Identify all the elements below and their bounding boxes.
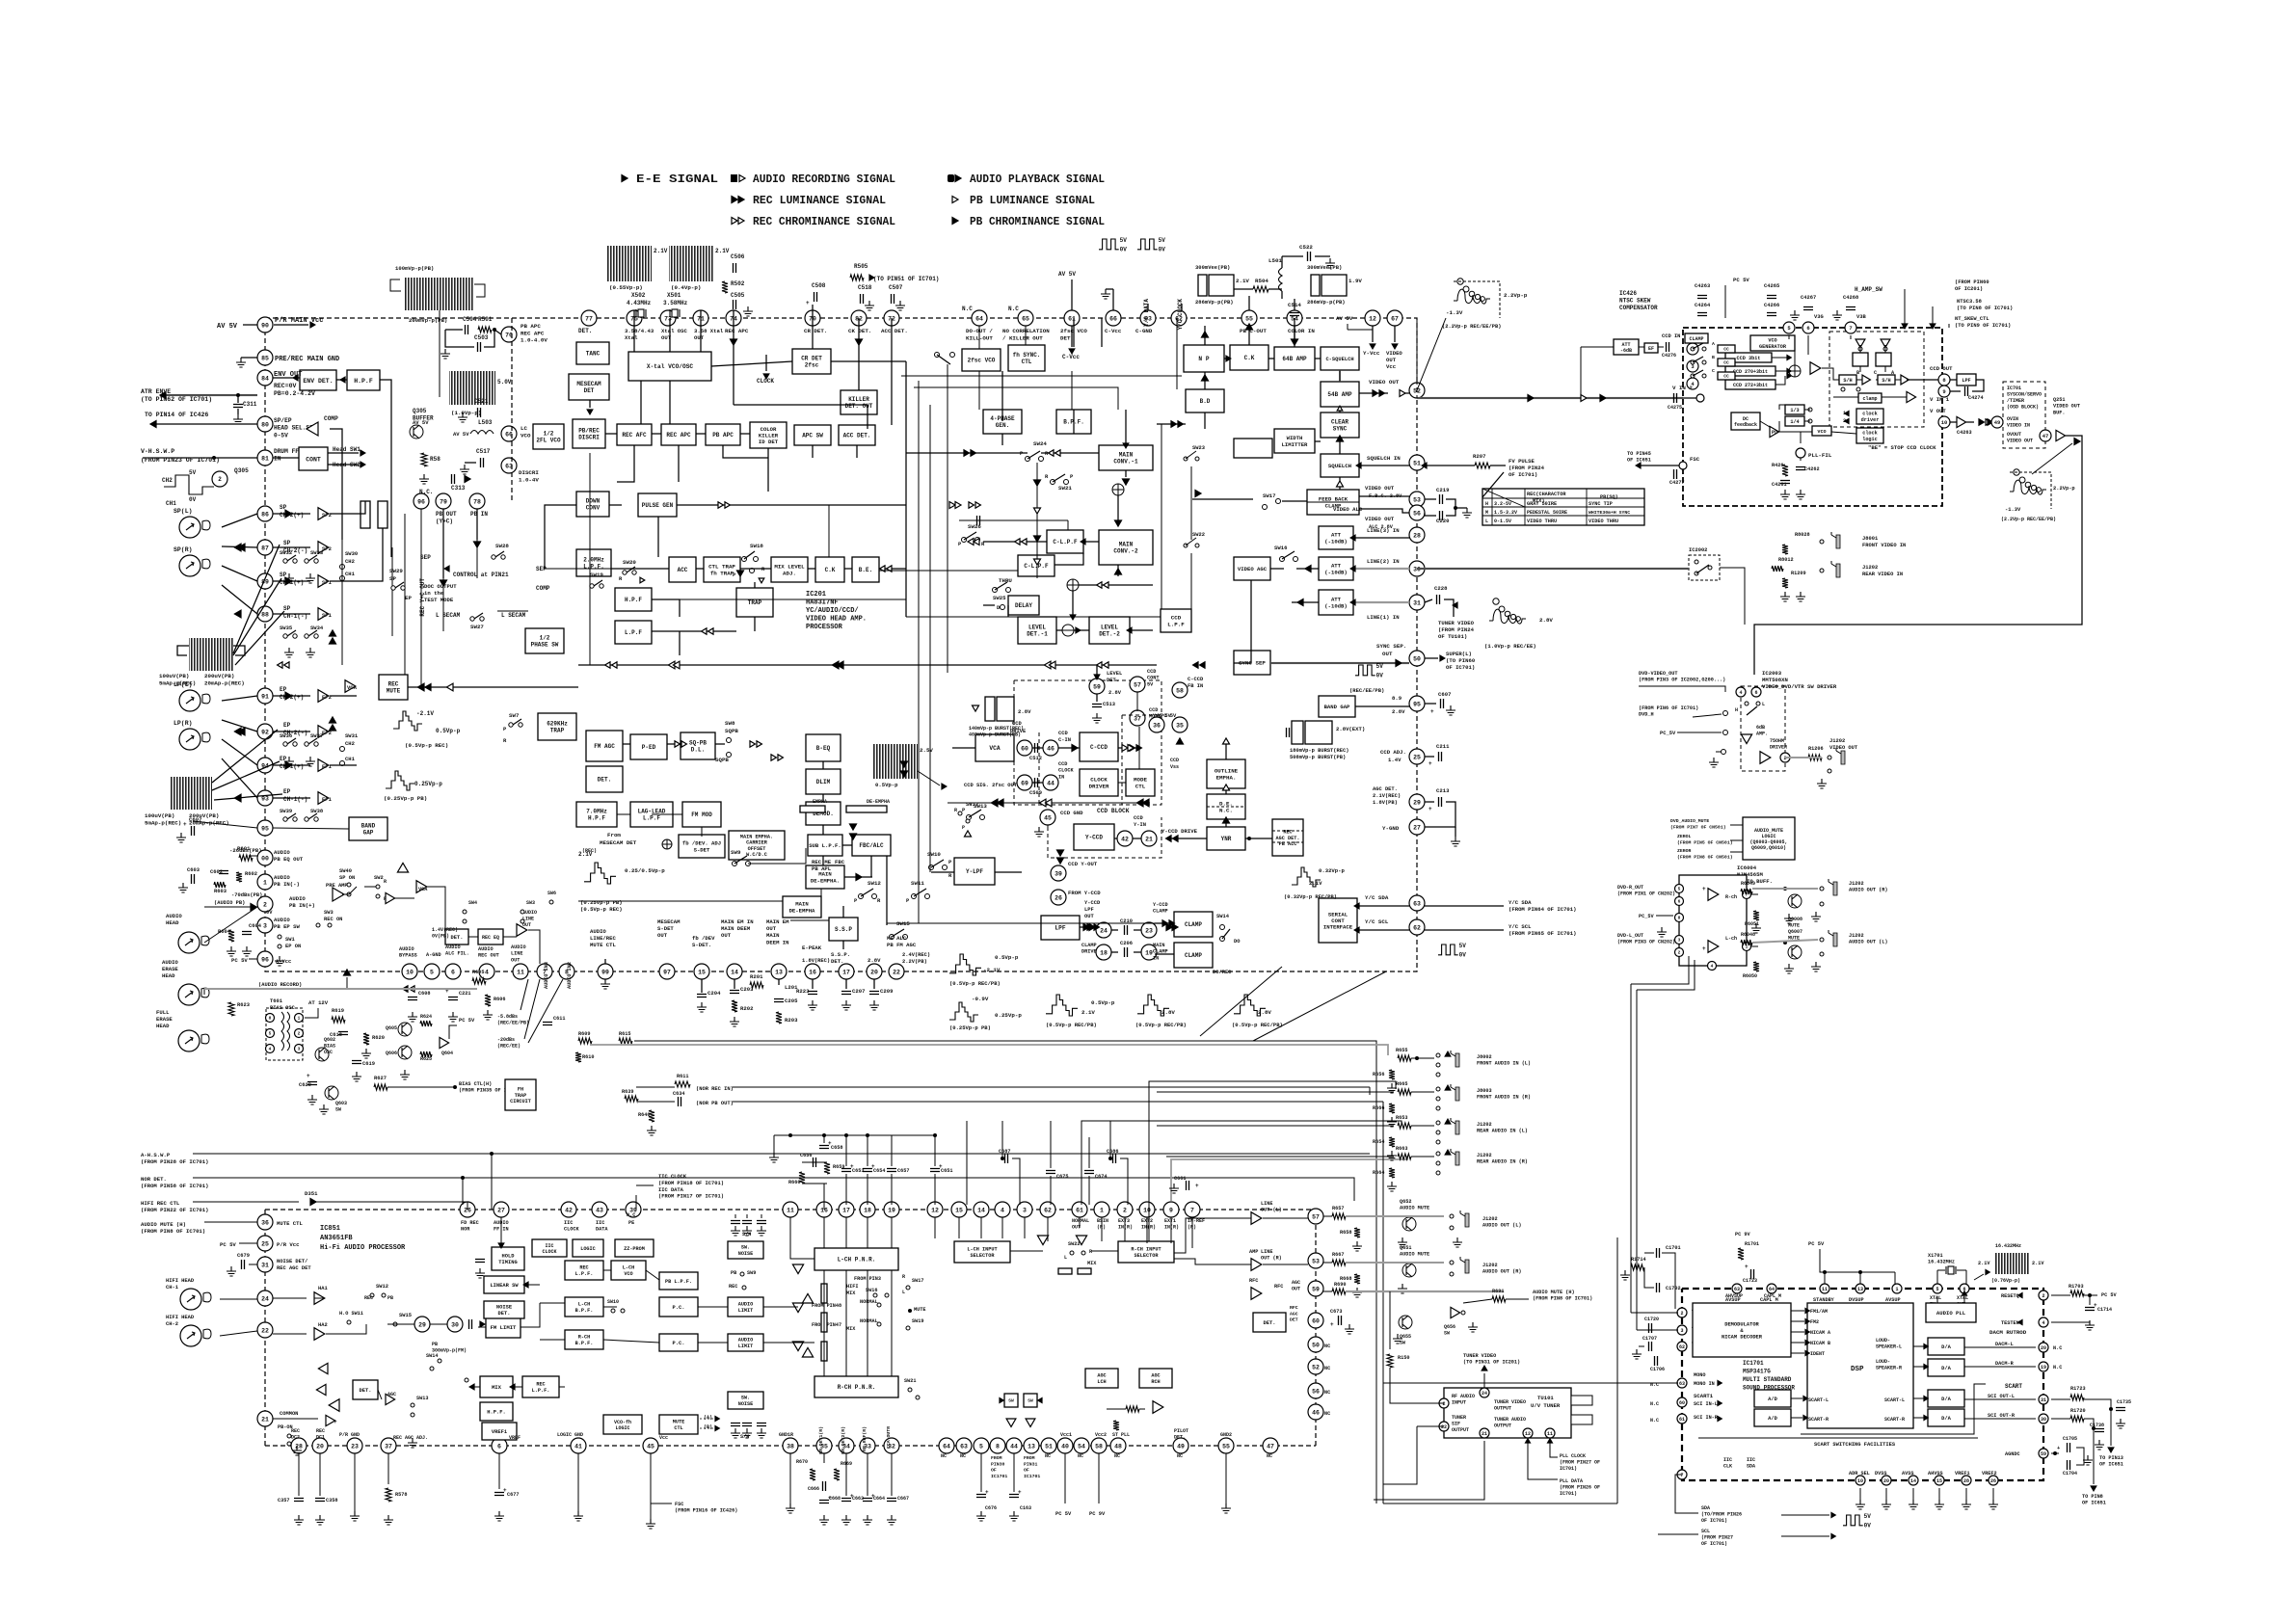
pin 76 PB APC bbox=[501, 327, 517, 342]
speaker SP(R) bbox=[179, 555, 200, 576]
burst rect glyph ccd bbox=[985, 697, 995, 721]
R624 R625 bbox=[420, 1021, 432, 1026]
svg-text:NR-DET2(R): NR-DET2(R) bbox=[841, 1426, 846, 1454]
svg-text:SW21: SW21 bbox=[1058, 485, 1072, 492]
svg-text:0.32Vp-p: 0.32Vp-p bbox=[1319, 867, 1345, 874]
svg-text:R201: R201 bbox=[750, 973, 763, 980]
up arrows to vca line bbox=[330, 630, 336, 636]
pin 79 bbox=[436, 493, 451, 509]
pin 27 IC201 right bbox=[1409, 819, 1425, 835]
svg-text:AV 5V: AV 5V bbox=[1058, 271, 1076, 278]
svg-text:LEVEL: LEVEL bbox=[1028, 625, 1046, 631]
svg-text:S/H: S/H bbox=[740, 1434, 749, 1440]
svg-text:YNR: YNR bbox=[1221, 836, 1232, 842]
R6049 bbox=[1741, 889, 1752, 894]
svg-text:R-CH P.N.R.: R-CH P.N.R. bbox=[838, 1384, 876, 1391]
svg-text:+: + bbox=[1428, 806, 1432, 812]
svg-text:29: 29 bbox=[418, 1321, 426, 1328]
NP block bbox=[1184, 345, 1224, 372]
svg-text:feedback: feedback bbox=[1734, 422, 1757, 428]
svg-text:51: 51 bbox=[1045, 1443, 1053, 1450]
capacitor C656 bbox=[814, 1157, 816, 1167]
svg-text:OUT: OUT bbox=[1292, 1287, 1300, 1292]
pin 57 IC851 right bbox=[1308, 1209, 1323, 1224]
arrow into table bbox=[1482, 472, 1504, 497]
MSP3417 thick dashed box bbox=[1682, 1289, 2043, 1480]
svg-text:PC 5V: PC 5V bbox=[1808, 1241, 1825, 1247]
svg-text:LOGIC: LOGIC bbox=[615, 1425, 629, 1431]
pin 30 IC201 right bbox=[1409, 561, 1425, 576]
sum circle conv2 bbox=[1067, 579, 1079, 591]
svg-text:PB IN(-): PB IN(-) bbox=[274, 881, 300, 888]
svg-text:(REC/EE/PB): (REC/EE/PB) bbox=[497, 1021, 529, 1026]
svg-text:CONV.-2: CONV.-2 bbox=[1113, 548, 1138, 555]
svg-text:42: 42 bbox=[565, 1207, 573, 1213]
svg-text:HEAD: HEAD bbox=[166, 919, 179, 926]
square wave sync sep bbox=[1355, 665, 1375, 676]
pin 27 IC851 top bbox=[494, 1202, 509, 1217]
svg-text:45: 45 bbox=[1044, 814, 1052, 821]
svg-text:286mVp-p(PB): 286mVp-p(PB) bbox=[1307, 299, 1346, 306]
svg-text:CIRCUIT: CIRCUIT bbox=[510, 1099, 531, 1104]
wires ynr bbox=[1245, 838, 1272, 839]
table rec pb levels bbox=[1482, 489, 1644, 525]
R604 C604 bbox=[228, 930, 234, 942]
pll fsc wire bbox=[1639, 465, 1683, 466]
svg-text:+: + bbox=[183, 821, 187, 828]
VCA triangle bbox=[345, 680, 356, 693]
svg-text:(0.5Vp-p REC): (0.5Vp-p REC) bbox=[405, 742, 448, 749]
svg-text:2: 2 bbox=[2042, 1293, 2044, 1299]
pin 82 IC201 top bbox=[851, 310, 867, 326]
svg-text:NC: NC bbox=[1114, 1453, 1120, 1459]
svg-text:2.2Vp-p: 2.2Vp-p bbox=[1504, 292, 1528, 299]
svg-text:AUDIO: AUDIO bbox=[738, 1338, 754, 1344]
svg-text:(TO PIN60: (TO PIN60 bbox=[1446, 657, 1476, 664]
svg-text:(FROM PIN7 OF CN501): (FROM PIN7 OF CN501) bbox=[1670, 824, 1726, 830]
svg-text:100mVp-p(PB): 100mVp-p(PB) bbox=[395, 265, 434, 272]
DLIM block bbox=[806, 769, 841, 794]
svg-text:TRAP: TRAP bbox=[748, 599, 762, 606]
pin 90 IC201 left bbox=[257, 317, 273, 333]
audio out R jack mid bbox=[1450, 1261, 1454, 1264]
svg-text:FRONT AUDIO IN (L): FRONT AUDIO IN (L) bbox=[1477, 1061, 1531, 1067]
svg-text:63: 63 bbox=[1413, 900, 1421, 907]
pins 29 30 bbox=[414, 1317, 430, 1332]
pin 31 IC201 right bbox=[1409, 595, 1425, 610]
svg-text:LOUD-: LOUD- bbox=[1876, 1338, 1890, 1344]
ENV DET block bbox=[300, 370, 336, 390]
svg-text:5V: 5V bbox=[1864, 1513, 1872, 1520]
SH block1 bbox=[1839, 375, 1856, 385]
svg-text:AV 5V: AV 5V bbox=[217, 323, 238, 331]
SSP block bbox=[829, 918, 858, 941]
svg-text:2fsc VCO: 2fsc VCO bbox=[968, 358, 996, 364]
svg-text:PIN31: PIN31 bbox=[1024, 1461, 1038, 1467]
svg-text:C209: C209 bbox=[880, 988, 894, 995]
glyph 300mV PB2 bbox=[1311, 275, 1320, 296]
svg-text:PROCESSOR: PROCESSOR bbox=[806, 624, 843, 631]
svg-text:H: H bbox=[1735, 707, 1738, 713]
pin 32 IC851 bottom bbox=[884, 1438, 899, 1453]
svg-text:SELECTOR: SELECTOR bbox=[971, 1253, 996, 1259]
wire trunk rec bbox=[408, 686, 429, 688]
CLAMP block2 bbox=[1174, 943, 1213, 968]
svg-text:PB L.P.F.: PB L.P.F. bbox=[665, 1279, 692, 1285]
svg-text:SW2: SW2 bbox=[374, 875, 384, 881]
svg-text:DEMODULATOR: DEMODULATOR bbox=[1724, 1321, 1759, 1327]
svg-text:11: 11 bbox=[1822, 1287, 1828, 1292]
svg-text:VIDEO THRU: VIDEO THRU bbox=[1527, 519, 1557, 524]
svg-text:CH-2: CH-2 bbox=[166, 1321, 178, 1327]
svg-text:Y-LPF: Y-LPF bbox=[966, 868, 983, 875]
svg-text:DET.: DET. bbox=[598, 777, 611, 784]
svg-text:CH-1: CH-1 bbox=[166, 1285, 178, 1290]
svg-text:SCART-R: SCART-R bbox=[1884, 1417, 1905, 1423]
svg-text:+: + bbox=[1430, 708, 1434, 715]
left lines to audio in bbox=[1157, 1091, 1394, 1093]
pin 00 IC201 left bbox=[257, 850, 273, 865]
svg-text:C204: C204 bbox=[707, 990, 721, 997]
ccd trunk y833 bbox=[948, 802, 1150, 804]
svg-text:C512: C512 bbox=[1029, 756, 1042, 761]
SW NOISE block bottom bbox=[728, 1392, 763, 1409]
CCD block dashed outline bbox=[1014, 680, 1161, 805]
ZZ-PROM block bbox=[615, 1239, 654, 1257]
svg-text:SW34: SW34 bbox=[310, 625, 324, 631]
DEMODULATOR NICAM block bbox=[1693, 1303, 1791, 1357]
svg-text:1/2: 1/2 bbox=[540, 635, 550, 642]
svg-text:EP1: EP1 bbox=[322, 763, 333, 770]
svg-text:PC_5V: PC_5V bbox=[1660, 731, 1676, 736]
svg-text:SW12: SW12 bbox=[868, 880, 881, 887]
svg-text:IN(R): IN(R) bbox=[1141, 1225, 1156, 1231]
svg-text:-2.1V: -2.1V bbox=[416, 710, 434, 717]
svg-text:C313: C313 bbox=[451, 485, 466, 492]
svg-text:C521: C521 bbox=[474, 398, 489, 405]
svg-text:R670: R670 bbox=[796, 1459, 808, 1465]
pin 84 IC201 left bbox=[257, 370, 273, 386]
svg-text:B.D: B.D bbox=[1200, 398, 1211, 405]
svg-text:2.8V: 2.8V bbox=[1539, 617, 1553, 624]
capacitor C313 bbox=[452, 474, 455, 484]
nor rec in wire bbox=[675, 1081, 690, 1087]
svg-text:6: 6 bbox=[1806, 325, 1809, 332]
bus into pnr bbox=[790, 1217, 814, 1259]
svg-text:R-ch: R-ch bbox=[1725, 894, 1737, 900]
pin 75 IC201 top bbox=[627, 310, 642, 326]
svg-text:LPF: LPF bbox=[1055, 925, 1065, 932]
svg-text:5V: 5V bbox=[1159, 237, 1166, 244]
svg-text:(B): (B) bbox=[704, 1424, 712, 1430]
svg-text:L: L bbox=[1762, 702, 1765, 707]
svg-text:C611: C611 bbox=[553, 1016, 565, 1022]
svg-text:SW7: SW7 bbox=[509, 712, 520, 719]
svg-text:OUT: OUT bbox=[1386, 357, 1397, 363]
pin 86 IC201 left bbox=[257, 506, 273, 521]
svg-text:C4266: C4266 bbox=[1764, 303, 1779, 308]
svg-text:IC1701: IC1701 bbox=[991, 1474, 1007, 1479]
speaker LP(R) bbox=[179, 729, 200, 750]
svg-text:2: 2 bbox=[298, 1031, 301, 1037]
svg-text:MONO: MONO bbox=[1694, 1372, 1705, 1378]
svg-text:R639: R639 bbox=[622, 1089, 633, 1095]
pin 91 IC201 left bbox=[257, 688, 273, 704]
MSP power C1701 bbox=[1657, 1248, 1660, 1258]
svg-text:C206: C206 bbox=[1120, 941, 1133, 946]
svg-text:REC ON: REC ON bbox=[324, 917, 342, 922]
audio mute logic block bbox=[1743, 817, 1795, 860]
R606 bbox=[485, 995, 491, 1006]
svg-text:300mVp-p(FM): 300mVp-p(FM) bbox=[432, 1348, 467, 1354]
svg-text:C1714: C1714 bbox=[2097, 1307, 2112, 1313]
svg-text:90: 90 bbox=[261, 322, 269, 329]
svg-text:7.0MHz: 7.0MHz bbox=[586, 809, 607, 815]
amp tri clamp bbox=[1907, 391, 1916, 402]
svg-text:(0.25Vp-p PB): (0.25Vp-p PB) bbox=[949, 1024, 991, 1031]
svg-text:5V: 5V bbox=[1120, 237, 1128, 244]
ccd out pin8 bbox=[1938, 374, 1950, 386]
svg-text:RFC: RFC bbox=[1290, 1305, 1298, 1311]
wires clamp bbox=[1155, 922, 1174, 924]
svg-text:95: 95 bbox=[1413, 701, 1421, 707]
svg-text:C221: C221 bbox=[459, 991, 470, 997]
svg-text:SYNC: SYNC bbox=[1333, 426, 1348, 433]
vertical bus pair bbox=[1369, 1087, 1371, 1095]
audio out l jack bbox=[1820, 938, 1824, 942]
audio out r jack bbox=[1820, 887, 1824, 891]
svg-text:CH1: CH1 bbox=[345, 571, 356, 577]
EF triangle bbox=[1957, 416, 1966, 427]
MAIN EMPHA CARRIER block bbox=[729, 831, 785, 860]
pre amp bbox=[333, 888, 344, 901]
svg-text:4.43MHz: 4.43MHz bbox=[627, 300, 652, 306]
svg-text:P.C.: P.C. bbox=[673, 1305, 685, 1311]
pin 63 IC851 bottom bbox=[956, 1438, 972, 1453]
svg-text:SQUELCH IN: SQUELCH IN bbox=[1367, 455, 1401, 462]
svg-text:R1723: R1723 bbox=[2070, 1386, 2086, 1392]
svg-text:TRAP: TRAP bbox=[515, 1093, 526, 1099]
svg-text:64: 64 bbox=[1769, 1287, 1775, 1292]
svg-text:C676: C676 bbox=[985, 1505, 997, 1511]
svg-text:13: 13 bbox=[775, 969, 783, 975]
svg-text:NC: NC bbox=[1324, 1411, 1330, 1417]
EF small block bbox=[1644, 343, 1658, 353]
C4277 cap bbox=[1674, 469, 1677, 479]
pin 25 IC201 right bbox=[1409, 749, 1425, 764]
c-ccd out arrows bbox=[1122, 745, 1128, 752]
vco small block bbox=[1812, 426, 1831, 436]
svg-text:"BE" = STOP CCD CLOCK: "BE" = STOP CCD CLOCK bbox=[1868, 444, 1936, 451]
svg-text:29: 29 bbox=[1413, 799, 1421, 806]
svg-text:Y/C CLOCK: Y/C CLOCK bbox=[1177, 299, 1184, 331]
svg-text:-70dBs(PB): -70dBs(PB) bbox=[231, 892, 262, 898]
svg-text:OF: OF bbox=[1024, 1468, 1029, 1474]
svg-text:23: 23 bbox=[1145, 927, 1153, 934]
svg-text:REAR VIDEO IN: REAR VIDEO IN bbox=[1862, 572, 1903, 577]
svg-text:C518: C518 bbox=[858, 284, 872, 291]
svg-text:COMP: COMP bbox=[324, 415, 338, 422]
svg-text:C213: C213 bbox=[1436, 787, 1450, 794]
mid horizontal trunk y690 bbox=[578, 664, 1157, 666]
svg-text:19: 19 bbox=[888, 1207, 895, 1213]
svg-text:SCL: SCL bbox=[1701, 1529, 1710, 1534]
ATT block pin31 bbox=[1319, 590, 1353, 615]
svg-text:AUDIO: AUDIO bbox=[478, 946, 494, 952]
SQUELCH block bbox=[1321, 454, 1359, 477]
HA2 amp bbox=[314, 1328, 325, 1341]
svg-text:PB EP SW: PB EP SW bbox=[274, 923, 300, 930]
wire ssp bbox=[842, 906, 844, 918]
row440 hwires bbox=[605, 433, 617, 435]
svg-text:L: L bbox=[1485, 519, 1488, 524]
svg-text:2.2Vp-p: 2.2Vp-p bbox=[2053, 486, 2075, 492]
svg-text:R606: R606 bbox=[494, 997, 505, 1002]
svg-text:(TO/FROM PIN26: (TO/FROM PIN26 bbox=[1701, 1512, 1742, 1518]
pin 64 IC201 top bbox=[972, 310, 987, 326]
svg-text:5mAp-p(REC): 5mAp-p(REC) bbox=[159, 679, 196, 686]
svg-text:ZEROR: ZEROR bbox=[1677, 848, 1692, 854]
svg-text:IIC: IIC bbox=[1747, 1457, 1755, 1463]
svg-text:CC: CC bbox=[1723, 360, 1729, 366]
pin 99 IC201 bottom bbox=[598, 964, 613, 979]
svg-text:(2.2Vp-p REC/EE/PB): (2.2Vp-p REC/EE/PB) bbox=[1442, 324, 1501, 330]
svg-text:2.8V: 2.8V bbox=[1392, 708, 1405, 715]
svg-text:1: 1 bbox=[298, 1016, 301, 1022]
svg-text:LINE: LINE bbox=[1261, 1201, 1272, 1207]
svg-text:fh SYNC.: fh SYNC. bbox=[1013, 352, 1041, 359]
svg-text:2.2V(PB): 2.2V(PB) bbox=[902, 959, 927, 965]
svg-text:0-5V: 0-5V bbox=[274, 432, 288, 439]
svg-text:63: 63 bbox=[1734, 1287, 1740, 1292]
att wires bbox=[1353, 537, 1409, 539]
svg-text:AMP.: AMP. bbox=[1756, 732, 1768, 737]
svg-text:KILLER: KILLER bbox=[848, 396, 869, 403]
svg-text:DVD-R_OUT: DVD-R_OUT bbox=[1617, 885, 1643, 891]
svg-text:96: 96 bbox=[417, 498, 425, 505]
DC feedback block bbox=[1731, 412, 1760, 430]
svg-text:AUDIO: AUDIO bbox=[166, 913, 182, 919]
R1714 bbox=[1631, 1264, 1644, 1270]
svg-text:CCD BLOCK: CCD BLOCK bbox=[1097, 808, 1130, 814]
629KHz trap wires bbox=[623, 743, 630, 745]
OUTLINE EMPHA block bbox=[1207, 759, 1245, 788]
svg-text:REC AFC: REC AFC bbox=[622, 432, 647, 439]
L-CH PNR block bbox=[814, 1248, 898, 1270]
pin 1 IC201 left bbox=[257, 874, 273, 890]
svg-text:N.C.: N.C. bbox=[1219, 807, 1233, 813]
svg-text:DRUM FF: DRUM FF bbox=[274, 448, 299, 455]
7MHz HPF block bbox=[576, 802, 617, 827]
pin 13 IC201 bottom bbox=[771, 964, 787, 979]
svg-text:L.P.F: L.P.F bbox=[625, 629, 642, 636]
svg-text:C654: C654 bbox=[873, 1168, 885, 1174]
svg-text:SW27: SW27 bbox=[470, 624, 484, 630]
svg-text:C-GND: C-GND bbox=[1135, 328, 1153, 334]
CONT block bbox=[299, 447, 328, 470]
pin 45 ccd gnd bbox=[1040, 810, 1055, 825]
svg-text:PB: PB bbox=[387, 1295, 393, 1301]
svg-text:R: R bbox=[384, 879, 387, 885]
pin 63 DISCRI bbox=[501, 458, 517, 473]
resistor R660 bbox=[799, 1172, 805, 1184]
svg-text:17: 17 bbox=[842, 969, 850, 975]
R6050 bbox=[1753, 962, 1759, 971]
svg-text:OFFSET: OFFSET bbox=[748, 846, 766, 852]
LOGIC block bbox=[573, 1239, 603, 1257]
svg-text:PB OUT: PB OUT bbox=[436, 511, 457, 518]
svg-text:5: 5 bbox=[1678, 887, 1681, 892]
svg-text:SQ-PB: SQ-PB bbox=[689, 740, 707, 747]
pin 69 ccd sig out bbox=[1017, 775, 1032, 790]
svg-text:R202: R202 bbox=[740, 1005, 754, 1012]
C608 bbox=[408, 998, 417, 1000]
switch SW39 SW38 bbox=[283, 817, 287, 821]
svg-text:YC/AUDIO/CCD/: YC/AUDIO/CCD/ bbox=[806, 607, 859, 615]
2fsc VCO block bbox=[962, 349, 1001, 371]
svg-text:AUDIO OUT (L): AUDIO OUT (L) bbox=[1482, 1223, 1521, 1229]
svg-text:IC1701: IC1701 bbox=[1743, 1360, 1764, 1367]
svg-text:SCART-R: SCART-R bbox=[1808, 1417, 1829, 1423]
svg-text:5V: 5V bbox=[189, 469, 197, 476]
svg-text:DET.: DET. bbox=[451, 935, 464, 941]
svg-text:Vcc: Vcc bbox=[1386, 363, 1397, 370]
fsc label 851 bbox=[651, 1503, 672, 1504]
caps under bottom pins bbox=[701, 979, 703, 993]
svg-text:IC201: IC201 bbox=[806, 591, 826, 599]
R150 bbox=[1387, 1354, 1393, 1368]
svg-text:LINE: LINE bbox=[1261, 1249, 1272, 1255]
svg-text:ID DET: ID DET bbox=[759, 439, 779, 445]
svg-text:12: 12 bbox=[1525, 1431, 1531, 1437]
svg-text:97: 97 bbox=[663, 969, 671, 975]
switch rows abc bbox=[1691, 347, 1695, 351]
C1720 C1707 C1706 bbox=[1649, 1323, 1652, 1333]
HPF 851 bbox=[480, 1402, 513, 1421]
svg-text:NR-DET1(R): NR-DET1(R) bbox=[818, 1426, 824, 1454]
svg-text:REC: REC bbox=[388, 681, 399, 688]
svg-text:SYSCON/SERVO: SYSCON/SERVO bbox=[2007, 392, 2042, 398]
svg-text:CLAMP: CLAMP bbox=[1185, 921, 1202, 928]
svg-text:65: 65 bbox=[1022, 315, 1029, 322]
svg-text:53: 53 bbox=[1312, 1258, 1320, 1264]
pin 8 IC201 bottom bbox=[559, 964, 574, 979]
pin 56 IC851 right bbox=[1308, 1383, 1323, 1398]
svg-text:J1202: J1202 bbox=[1477, 1122, 1492, 1128]
svg-text:L503: L503 bbox=[478, 419, 493, 426]
svg-text:49: 49 bbox=[1994, 419, 2001, 426]
svg-text:AUDIO RECORDING SIGNAL: AUDIO RECORDING SIGNAL bbox=[753, 173, 895, 186]
svg-text:DOWN: DOWN bbox=[586, 498, 601, 505]
svg-text:LCH: LCH bbox=[1097, 1379, 1106, 1385]
de-empha to ssp wires bbox=[820, 889, 822, 896]
pin 12 IC201 top bbox=[1365, 310, 1380, 326]
svg-text:0V: 0V bbox=[189, 496, 197, 503]
C-LPF block1 bbox=[1047, 530, 1083, 553]
svg-text:C658: C658 bbox=[831, 1145, 842, 1151]
svg-text:MIX: MIX bbox=[492, 1384, 502, 1391]
svg-text:1.4V: 1.4V bbox=[1388, 757, 1402, 763]
staircase right3 bbox=[1046, 995, 1078, 1016]
svg-text:C656: C656 bbox=[800, 1153, 812, 1158]
svg-text:R8012: R8012 bbox=[1778, 557, 1794, 563]
LEVEL DET-1 block bbox=[1018, 617, 1056, 644]
IC701 dashed box bbox=[2003, 382, 2045, 448]
msp xtal blob bbox=[1995, 1253, 2030, 1274]
svg-text:LINEAR SW: LINEAR SW bbox=[490, 1283, 519, 1289]
svg-text:SP/EP: SP/EP bbox=[274, 417, 292, 424]
svg-text:GND1R: GND1R bbox=[779, 1432, 793, 1438]
